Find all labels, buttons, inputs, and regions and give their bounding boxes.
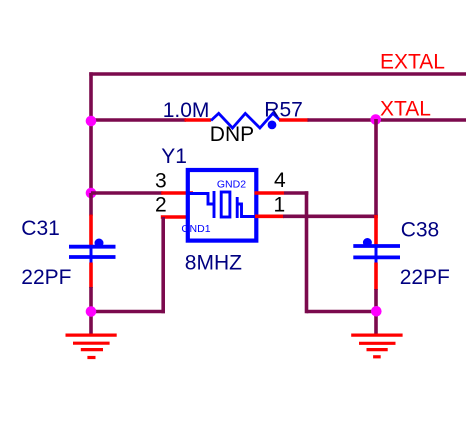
crystal Y1 symbol [189,191,256,218]
pin 1 lead [255,215,284,219]
junction dot node D [371,306,382,317]
junction dot XTAL [370,114,381,125]
wire pin4 horizontal [284,191,308,195]
svg-text:DNP: DNP [210,123,254,146]
svg-text:GND2: GND2 [217,179,246,191]
wire C31 to ground [89,287,93,335]
svg-text:1.0M: 1.0M [163,99,210,122]
lead C31 top [89,215,93,246]
capacitor C31 [69,247,116,263]
wire bottom left horizontal [91,310,165,314]
lead C31 bottom [89,263,93,289]
wire pin2 vertical [161,217,165,313]
lead C38 bottom [374,263,378,291]
pin lead right of R57 [279,118,309,122]
svg-text:GND1: GND1 [181,223,210,235]
svg-text:XTAL: XTAL [380,97,431,120]
resistor R57 [211,113,281,128]
junction dot node C [86,306,97,317]
wire pin4 vertical [305,191,309,313]
junction dot node B [86,188,97,199]
svg-text:C31: C31 [21,217,60,240]
pin 2 lead [161,215,188,219]
pin 4 lead [255,191,285,195]
svg-text:8MHZ: 8MHZ [185,251,242,274]
junction dot node A [86,116,97,127]
crystal Y1 body [188,170,256,241]
DNP dot on C31 [95,239,104,248]
wire XTAL vertical [374,119,378,216]
svg-text:R57: R57 [264,99,303,122]
wire EXTAL horizontal [89,72,466,76]
wire XTAL right segment [308,118,466,122]
ground right [351,335,402,357]
wire EXTAL vertical [89,72,93,194]
DNP dot on C38 [363,238,372,247]
svg-text:3: 3 [155,169,167,192]
wire pin3 to node B [91,191,163,195]
wire left branch upper [89,193,93,216]
wire bottom right horizontal [307,310,377,314]
svg-text:EXTAL: EXTAL [380,50,445,73]
pin 3 lead [161,191,193,195]
svg-text:4: 4 [274,169,286,192]
svg-text:2: 2 [155,194,167,217]
svg-text:1: 1 [274,194,286,217]
svg-text:C38: C38 [401,218,440,241]
svg-text:22PF: 22PF [400,266,450,289]
svg-text:22PF: 22PF [21,266,71,289]
wire pin1 to XTAL vertical [283,215,378,219]
DNP dot on R57 [268,121,277,130]
svg-text:Y1: Y1 [161,145,187,168]
wire XTAL left segment [91,118,186,122]
wire C38 to ground [374,289,378,335]
capacitor C38 [353,246,400,263]
pin lead left of R57 [185,118,212,122]
ground left [66,335,117,357]
lead C38 top [374,215,378,246]
